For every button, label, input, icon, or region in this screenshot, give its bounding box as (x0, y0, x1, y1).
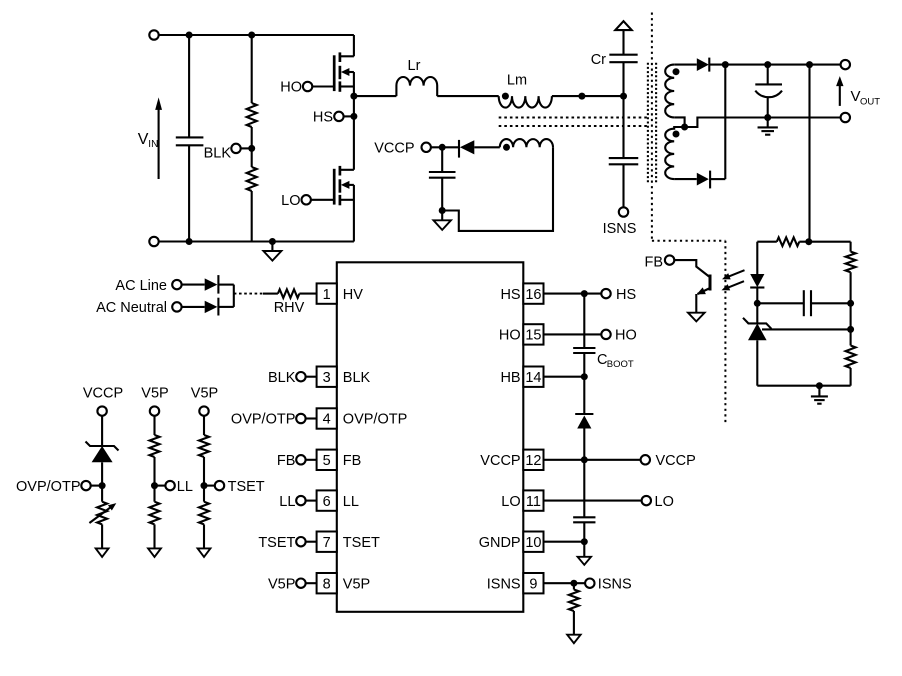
svg-text:HB: HB (500, 370, 520, 386)
svg-text:6: 6 (323, 494, 331, 510)
svg-text:VCCP: VCCP (480, 453, 520, 469)
svg-text:HO: HO (615, 328, 637, 344)
svg-text:ISNS: ISNS (598, 576, 632, 592)
svg-text:GNDP: GNDP (479, 535, 521, 551)
svg-text:FB: FB (644, 255, 663, 271)
svg-text:AC Line: AC Line (115, 278, 167, 294)
svg-text:10: 10 (525, 535, 541, 551)
svg-text:11: 11 (526, 494, 541, 510)
svg-text:HS: HS (313, 110, 333, 126)
svg-text:15: 15 (525, 328, 541, 344)
svg-text:V5P: V5P (343, 576, 370, 592)
svg-text:VCCP: VCCP (83, 386, 123, 402)
svg-text:BLK: BLK (343, 370, 371, 386)
svg-text:VCCP: VCCP (374, 141, 414, 157)
svg-text:LO: LO (281, 193, 300, 209)
svg-text:AC Neutral: AC Neutral (96, 300, 167, 316)
svg-text:V5P: V5P (268, 576, 295, 592)
svg-text:LO: LO (655, 494, 674, 510)
svg-text:12: 12 (525, 453, 541, 469)
svg-text:LO: LO (501, 494, 520, 510)
svg-text:LL: LL (177, 479, 193, 495)
svg-text:TSET: TSET (258, 535, 295, 551)
svg-text:3: 3 (323, 370, 331, 386)
svg-text:FB: FB (277, 453, 296, 469)
svg-text:LL: LL (279, 494, 295, 510)
svg-text:V: V (138, 131, 149, 148)
svg-text:BOOT: BOOT (607, 359, 634, 370)
svg-text:Lm: Lm (507, 73, 527, 89)
svg-text:HS: HS (616, 287, 636, 303)
svg-text:Lr: Lr (408, 58, 421, 74)
svg-text:V: V (851, 88, 861, 105)
svg-text:V5P: V5P (191, 386, 218, 402)
svg-text:BLK: BLK (268, 370, 296, 386)
svg-text:OVP/OTP: OVP/OTP (231, 412, 295, 428)
svg-text:ISNS: ISNS (603, 221, 637, 237)
svg-text:HO: HO (280, 80, 302, 96)
svg-text:OUT: OUT (860, 96, 880, 107)
svg-text:5: 5 (323, 453, 331, 469)
svg-text:LL: LL (343, 494, 359, 510)
svg-text:HS: HS (500, 287, 520, 303)
svg-text:IN: IN (148, 139, 158, 150)
svg-text:OVP/OTP: OVP/OTP (343, 412, 407, 428)
svg-text:TSET: TSET (228, 479, 265, 495)
svg-text:OVP/OTP: OVP/OTP (16, 479, 80, 495)
svg-text:7: 7 (323, 535, 331, 551)
svg-text:Cr: Cr (591, 52, 606, 68)
svg-text:1: 1 (323, 287, 331, 303)
svg-text:RHV: RHV (274, 300, 305, 316)
svg-text:HV: HV (343, 287, 363, 303)
svg-text:ISNS: ISNS (487, 576, 521, 592)
svg-text:TSET: TSET (343, 535, 380, 551)
svg-text:16: 16 (525, 287, 541, 303)
svg-text:4: 4 (323, 412, 331, 428)
svg-text:BLK: BLK (204, 145, 232, 161)
svg-text:8: 8 (323, 576, 331, 592)
svg-text:VCCP: VCCP (656, 453, 696, 469)
svg-text:9: 9 (529, 576, 537, 592)
svg-text:HO: HO (499, 328, 521, 344)
svg-text:V5P: V5P (141, 386, 168, 402)
svg-text:14: 14 (525, 370, 541, 386)
svg-text:FB: FB (343, 453, 362, 469)
